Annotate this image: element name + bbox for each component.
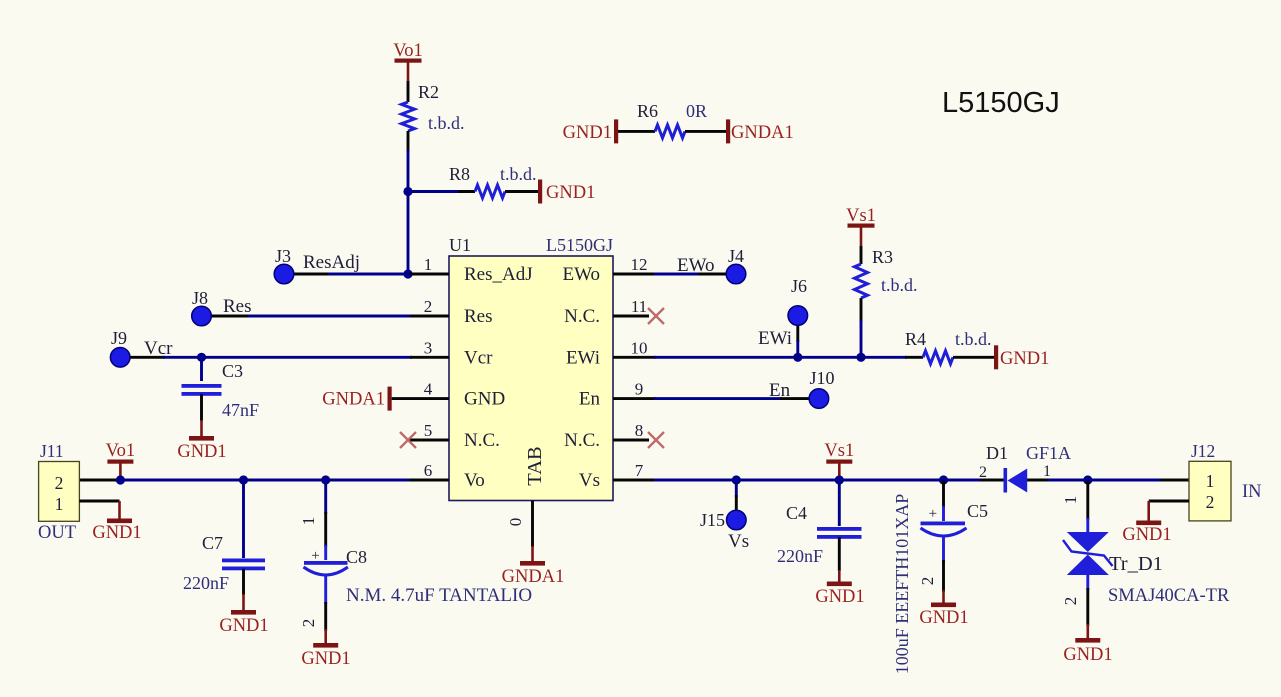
wire TAB stem xyxy=(531,501,534,548)
resistor R8 xyxy=(475,185,505,198)
capacitor C3 xyxy=(182,384,222,388)
svg-text:47nF: 47nF xyxy=(222,400,259,420)
junction R8 tee xyxy=(403,187,412,196)
resistor R3 xyxy=(855,264,868,298)
svg-text:220nF: 220nF xyxy=(183,573,229,593)
svg-text:N.C.: N.C. xyxy=(464,430,500,451)
svg-text:J3: J3 xyxy=(275,246,291,266)
svg-text:t.b.d.: t.b.d. xyxy=(955,329,992,349)
svg-text:1: 1 xyxy=(1043,463,1051,480)
ground GND1 (C5) xyxy=(931,603,956,608)
svg-text:GND: GND xyxy=(464,389,505,410)
wire R8 to GND1 xyxy=(505,190,539,193)
svg-text:12: 12 xyxy=(631,255,648,274)
svg-text:GND1: GND1 xyxy=(546,183,595,203)
svg-text:EWi: EWi xyxy=(758,328,792,349)
svg-text:2: 2 xyxy=(55,473,64,493)
wire pin12 net EWo xyxy=(613,273,656,276)
wire C3 bottom xyxy=(200,394,203,421)
wire pin3 net Vcr xyxy=(130,356,165,359)
wire C5 top xyxy=(942,480,945,508)
wire node to R8 xyxy=(408,190,460,193)
wire C4 top xyxy=(838,480,841,526)
junction C5 tee xyxy=(939,475,948,484)
svg-text:R8: R8 xyxy=(449,164,470,184)
ground GND1 (Tr_D1) xyxy=(1075,638,1100,643)
capacitor C8 (polarized) xyxy=(304,561,348,565)
svg-text:C8: C8 xyxy=(346,547,367,567)
svg-text:2: 2 xyxy=(979,464,987,481)
svg-text:L5150GJ: L5150GJ xyxy=(942,87,1060,119)
svg-text:R3: R3 xyxy=(872,247,893,267)
svg-text:OUT: OUT xyxy=(38,523,76,543)
svg-text:R4: R4 xyxy=(905,329,926,349)
wire node to R4 xyxy=(861,356,907,359)
svg-text:GNDA1: GNDA1 xyxy=(322,390,385,410)
wire Vo rail (J11 to U1 pin6) xyxy=(79,479,122,482)
wire J6 stem xyxy=(796,326,799,343)
junction J15 tee xyxy=(732,475,741,484)
svg-text:GNDA1: GNDA1 xyxy=(731,123,794,143)
svg-text:Vcr: Vcr xyxy=(144,338,173,359)
transient diode Tr_D1 xyxy=(1067,532,1109,552)
junction C3 tee xyxy=(197,353,206,362)
svg-text:R6: R6 xyxy=(637,101,658,121)
wire pin1 net ResAdj xyxy=(294,273,330,276)
svg-text:En: En xyxy=(579,389,601,410)
svg-text:C4: C4 xyxy=(786,503,807,523)
svg-text:N.C.: N.C. xyxy=(564,306,600,327)
svg-text:9: 9 xyxy=(635,380,644,399)
svg-text:Tr_D1: Tr_D1 xyxy=(1109,553,1163,575)
svg-text:GND1: GND1 xyxy=(815,587,864,607)
svg-text:C7: C7 xyxy=(202,533,223,553)
svg-text:SMAJ40CA-TR: SMAJ40CA-TR xyxy=(1108,586,1230,606)
ground GND1 (C8) xyxy=(313,643,338,648)
junction C8 tee xyxy=(321,475,330,484)
svg-text:2: 2 xyxy=(1061,597,1080,606)
wire pin2 net Res xyxy=(211,315,250,318)
svg-text:t.b.d.: t.b.d. xyxy=(428,113,465,133)
wire GND1 to R6 xyxy=(618,130,655,133)
wire rail D1 to J12 xyxy=(1027,479,1050,482)
wire R2 to node xyxy=(407,131,410,152)
svg-text:4: 4 xyxy=(424,380,433,399)
ground GND1 (C3) xyxy=(189,436,214,441)
wire Tr_D1 top xyxy=(1086,480,1089,520)
svg-text:Vo1: Vo1 xyxy=(393,41,422,61)
resistor R4 xyxy=(923,351,953,364)
svg-text:C5: C5 xyxy=(967,501,988,521)
capacitor C5 (polarized) xyxy=(921,522,966,526)
connector J3 xyxy=(274,264,294,284)
svg-text:1: 1 xyxy=(55,494,64,514)
svg-text:GND1: GND1 xyxy=(177,442,226,462)
svg-text:L5150GJ: L5150GJ xyxy=(546,235,613,255)
wire pin11 stub xyxy=(613,315,649,318)
junction C4 tee xyxy=(835,475,844,484)
wire Vs1 to R3 xyxy=(860,246,863,264)
svg-text:En: En xyxy=(769,380,791,401)
svg-text:100uF EEEFTH101XAP: 100uF EEEFTH101XAP xyxy=(892,494,912,675)
connector J10 xyxy=(809,389,829,409)
power flag Vo1 (rail) xyxy=(106,441,135,480)
svg-text:1: 1 xyxy=(424,255,433,274)
svg-text:N.C.: N.C. xyxy=(564,430,600,451)
ground GNDA1 (R6 right) xyxy=(726,119,730,143)
wire C3 top xyxy=(200,357,203,381)
svg-text:+: + xyxy=(929,506,937,522)
svg-text:8: 8 xyxy=(635,421,644,440)
resistor R6 xyxy=(655,125,685,138)
svg-text:GND1: GND1 xyxy=(1000,349,1049,369)
svg-text:t.b.d.: t.b.d. xyxy=(881,275,918,295)
wire pin5 stub xyxy=(408,439,449,442)
wire C8 top xyxy=(324,480,327,514)
ground GND1 (C4) xyxy=(827,582,852,587)
connector J8 xyxy=(192,306,212,326)
svg-text:EWi: EWi xyxy=(566,347,600,368)
svg-text:7: 7 xyxy=(635,461,644,480)
svg-text:EWo: EWo xyxy=(562,264,600,285)
capacitor C4 xyxy=(817,527,862,531)
wire pin9 net En xyxy=(613,397,656,400)
connector J9 xyxy=(110,348,130,368)
power flag Vo1 (top of R2) xyxy=(393,41,422,81)
junction J6 tee xyxy=(793,353,802,362)
svg-text:GND1: GND1 xyxy=(919,608,968,628)
wire C7 top xyxy=(242,480,245,558)
svg-text:Vs1: Vs1 xyxy=(824,441,854,461)
svg-text:U1: U1 xyxy=(449,235,471,255)
resistor R2 xyxy=(402,102,415,131)
svg-text:Vs: Vs xyxy=(728,531,749,552)
ground GND1 (J12) xyxy=(1136,521,1161,526)
junction R3/R4 tee xyxy=(856,353,865,362)
wire J11 pin1 to GND xyxy=(79,500,119,503)
connector J12 body xyxy=(1189,461,1231,521)
wire J15 stem xyxy=(735,480,738,497)
wire R6 to GNDA1 xyxy=(685,130,726,133)
svg-text:11: 11 xyxy=(631,297,647,316)
svg-text:J4: J4 xyxy=(728,246,744,266)
svg-text:GF1A: GF1A xyxy=(1026,443,1071,463)
svg-text:R2: R2 xyxy=(418,82,439,102)
svg-text:Res_AdJ: Res_AdJ xyxy=(464,264,533,285)
wire C4 bottom xyxy=(838,537,841,571)
junction pin1 tee xyxy=(403,269,412,278)
wire Vs rail (U1 pin7 to D1) xyxy=(613,479,656,482)
diode D1 xyxy=(1004,468,1008,493)
junction Tr_D1 tee xyxy=(1083,475,1092,484)
svg-text:GND1: GND1 xyxy=(219,616,268,636)
no-connect X pin11 xyxy=(648,308,664,324)
wire C5 bottom xyxy=(942,537,945,562)
svg-text:J12: J12 xyxy=(1191,441,1215,461)
connector J11 body xyxy=(39,462,80,522)
svg-text:J9: J9 xyxy=(111,328,127,348)
svg-text:C3: C3 xyxy=(222,361,243,381)
svg-text:t.b.d.: t.b.d. xyxy=(500,164,537,184)
svg-text:J11: J11 xyxy=(40,441,64,461)
op-amp U1 body (L5150GJ regulator) xyxy=(449,256,613,501)
svg-text:J15: J15 xyxy=(700,510,725,530)
connector J4 xyxy=(726,264,746,284)
power flag Vs1 (top of R3) xyxy=(846,206,876,246)
ground GND1 (R8) xyxy=(538,180,542,204)
junction Vo1 rail xyxy=(116,475,125,484)
junction C7 tee xyxy=(239,475,248,484)
connector J6 xyxy=(788,306,808,326)
svg-text:2: 2 xyxy=(1206,492,1215,512)
wire R3 to node xyxy=(860,298,863,322)
svg-text:2: 2 xyxy=(424,297,433,316)
svg-text:GND1: GND1 xyxy=(301,649,350,669)
svg-text:GND1: GND1 xyxy=(1122,525,1171,545)
power flag Vs1 (rail) xyxy=(824,441,854,480)
svg-text:J8: J8 xyxy=(192,288,208,308)
svg-text:Vcr: Vcr xyxy=(464,347,493,368)
svg-text:5: 5 xyxy=(424,421,433,440)
svg-text:2: 2 xyxy=(918,577,937,586)
svg-text:Vs: Vs xyxy=(579,470,600,491)
svg-text:1: 1 xyxy=(299,517,318,526)
wire R4 to GND1 xyxy=(953,356,994,359)
svg-text:ResAdj: ResAdj xyxy=(303,252,360,273)
wire Vo1 to R2 xyxy=(407,81,410,102)
wire pin10 net EWi xyxy=(613,356,656,359)
ground GND1 (J11) xyxy=(107,519,132,524)
svg-text:2: 2 xyxy=(299,619,318,628)
svg-text:Res: Res xyxy=(464,306,493,327)
svg-text:J6: J6 xyxy=(791,276,807,296)
svg-text:220nF: 220nF xyxy=(777,546,823,566)
ground GNDA1 (TAB) xyxy=(520,561,545,566)
wire pin4 stub xyxy=(392,397,449,400)
svg-text:IN: IN xyxy=(1242,482,1262,502)
no-connect X pin5 xyxy=(400,432,416,448)
capacitor C7 xyxy=(222,559,265,563)
svg-text:GND1: GND1 xyxy=(92,523,141,543)
svg-text:0: 0 xyxy=(506,518,525,527)
wire J12 pin2 to GND xyxy=(1149,500,1189,503)
wire Tr_D1 bottom xyxy=(1086,575,1089,590)
wire C8 bottom xyxy=(324,576,327,604)
wire C7 bottom xyxy=(242,569,245,595)
svg-text:GNDA1: GNDA1 xyxy=(502,567,565,587)
svg-text:GND1: GND1 xyxy=(1063,645,1112,665)
svg-text:Vo: Vo xyxy=(464,470,485,491)
svg-text:Vo1: Vo1 xyxy=(106,441,135,461)
svg-text:1: 1 xyxy=(1206,471,1215,491)
svg-text:6: 6 xyxy=(424,461,433,480)
connector J15 xyxy=(727,510,747,530)
svg-text:Vs1: Vs1 xyxy=(846,206,876,226)
svg-text:+: + xyxy=(311,548,319,564)
svg-text:3: 3 xyxy=(424,338,433,357)
svg-text:1: 1 xyxy=(1061,496,1080,505)
ground GND1 (C7) xyxy=(231,610,256,615)
no-connect X pin8 xyxy=(648,432,664,448)
svg-text:J10: J10 xyxy=(809,368,834,388)
svg-text:0R: 0R xyxy=(686,101,707,121)
svg-text:EWo: EWo xyxy=(677,255,715,276)
wire pin8 stub xyxy=(613,439,649,442)
svg-text:GND1: GND1 xyxy=(563,123,612,143)
svg-text:Res: Res xyxy=(223,296,252,317)
svg-text:TAB: TAB xyxy=(524,446,546,485)
svg-text:N.M. 4.7uF TANTALIO: N.M. 4.7uF TANTALIO xyxy=(346,585,532,606)
svg-text:D1: D1 xyxy=(986,443,1008,463)
svg-text:10: 10 xyxy=(631,338,648,357)
ground GND1 (R4) xyxy=(994,345,998,369)
